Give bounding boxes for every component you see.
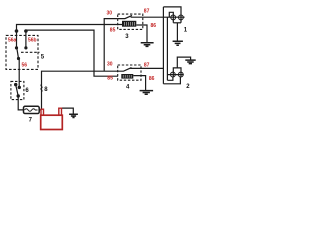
relay 3 dashed box (118, 14, 143, 29)
headlight switch S6 dashed box (11, 81, 24, 99)
svg-text:3: 3 (125, 34, 129, 40)
svg-text:30: 30 (107, 11, 113, 17)
riser from bus to relay 3 terminal 30 (104, 19, 118, 72)
svg-text:56: 56 (22, 62, 28, 68)
lamp 1 right bulb (179, 15, 184, 20)
switch 6 contact dot (14, 83, 17, 86)
dimmer switch mechanical dashed line (21, 51, 40, 53)
ground right of lamp 2 (185, 60, 195, 64)
wire relay 4 87 to vertical V1 (141, 67, 163, 69)
dimmer switch S5 dashed box (6, 35, 38, 69)
ground under lamp 1 (173, 41, 183, 45)
svg-text:85: 85 (110, 28, 116, 34)
battery negative post (59, 108, 62, 115)
switch 6 pole dot (17, 94, 20, 97)
lamp 1 inner bracket (169, 12, 173, 22)
ground under relay 4 (140, 91, 154, 95)
lamp 1 left bulb (171, 15, 176, 20)
relay 3 coil (122, 21, 136, 27)
relay 3 contact 30-87 (118, 15, 143, 18)
lamp 2 right bulb (178, 72, 183, 77)
svg-text:2: 2 (186, 84, 190, 90)
svg-text:86: 86 (151, 23, 157, 29)
svg-text:6: 6 (25, 88, 29, 94)
battery body (41, 115, 63, 129)
wire bus 56a from dimmer to relay 3 coil (17, 25, 123, 49)
wire bus 56b from dimmer toward relay 4 (26, 30, 118, 76)
svg-text:7: 7 (29, 118, 33, 124)
node 56b junction dot (24, 29, 28, 33)
wire battery minus to ground (62, 108, 74, 114)
relay 3 coil hatch (124, 22, 134, 26)
wire relay 3 87 to lamp 1 row (143, 16, 185, 18)
wire from switch 6 to fuse 7 (18, 96, 23, 110)
relay 4 coil hatch (123, 75, 131, 78)
lamp 2 top bracket (173, 68, 181, 72)
wire battery plus to fuse junction (39, 109, 41, 111)
wire 56 from dimmer pole down to switch 6 (18, 59, 21, 88)
svg-text:85: 85 (107, 75, 113, 81)
lamp 2 left bulb (171, 72, 176, 77)
wire 8 squiggle (41, 85, 42, 92)
switch 6 input dot (18, 86, 21, 89)
switch 6 lever (16, 85, 19, 96)
fuse F7 box (24, 106, 40, 113)
svg-text:8: 8 (44, 87, 48, 93)
relay 4 dashed box (118, 65, 141, 80)
relay 4 contact 30-87 (118, 68, 141, 72)
lamp 1 bottom bracket to ground (173, 22, 181, 24)
svg-text:86: 86 (149, 76, 155, 82)
wire coil to terminal 86 and ground (136, 25, 147, 42)
dimmer pole dot (17, 57, 20, 60)
wire relay 4 coil to 86 ground (133, 76, 145, 91)
svg-text:1: 1 (184, 28, 188, 34)
lamp 2 outer bottom bracket (163, 77, 180, 84)
svg-text:87: 87 (144, 8, 150, 14)
lamp 1 outer bracket (163, 7, 181, 23)
battery positive post (41, 109, 44, 115)
fuse element (25, 109, 38, 112)
lamp 2 verticals through bulbs (173, 72, 181, 77)
battery bus wire to relays 30 (42, 71, 119, 109)
lamp 2 inner bottom bracket (167, 77, 173, 81)
relay 4 coil (121, 74, 133, 79)
svg-text:30: 30 (107, 62, 113, 68)
lamp 1 ground stem (176, 23, 178, 41)
lamp 2 row wire (167, 74, 183, 76)
svg-text:56a: 56a (8, 38, 17, 44)
vertical V1 low-beam feed (162, 7, 164, 84)
ground under relay 3 (141, 43, 154, 47)
ground at battery (69, 114, 78, 117)
dimmer contact 56a dot (15, 46, 18, 49)
node 56a junction dot (15, 29, 19, 33)
vertical V2 high-beam feed (166, 17, 168, 80)
svg-text:5: 5 (41, 54, 45, 60)
svg-text:56b: 56b (28, 38, 37, 44)
dimmer contact 56b dot (24, 46, 27, 49)
svg-text:4: 4 (126, 85, 130, 91)
svg-text:87: 87 (144, 62, 150, 68)
lamp 2 ground wire up right (177, 57, 190, 68)
dimmer lever (17, 48, 19, 59)
